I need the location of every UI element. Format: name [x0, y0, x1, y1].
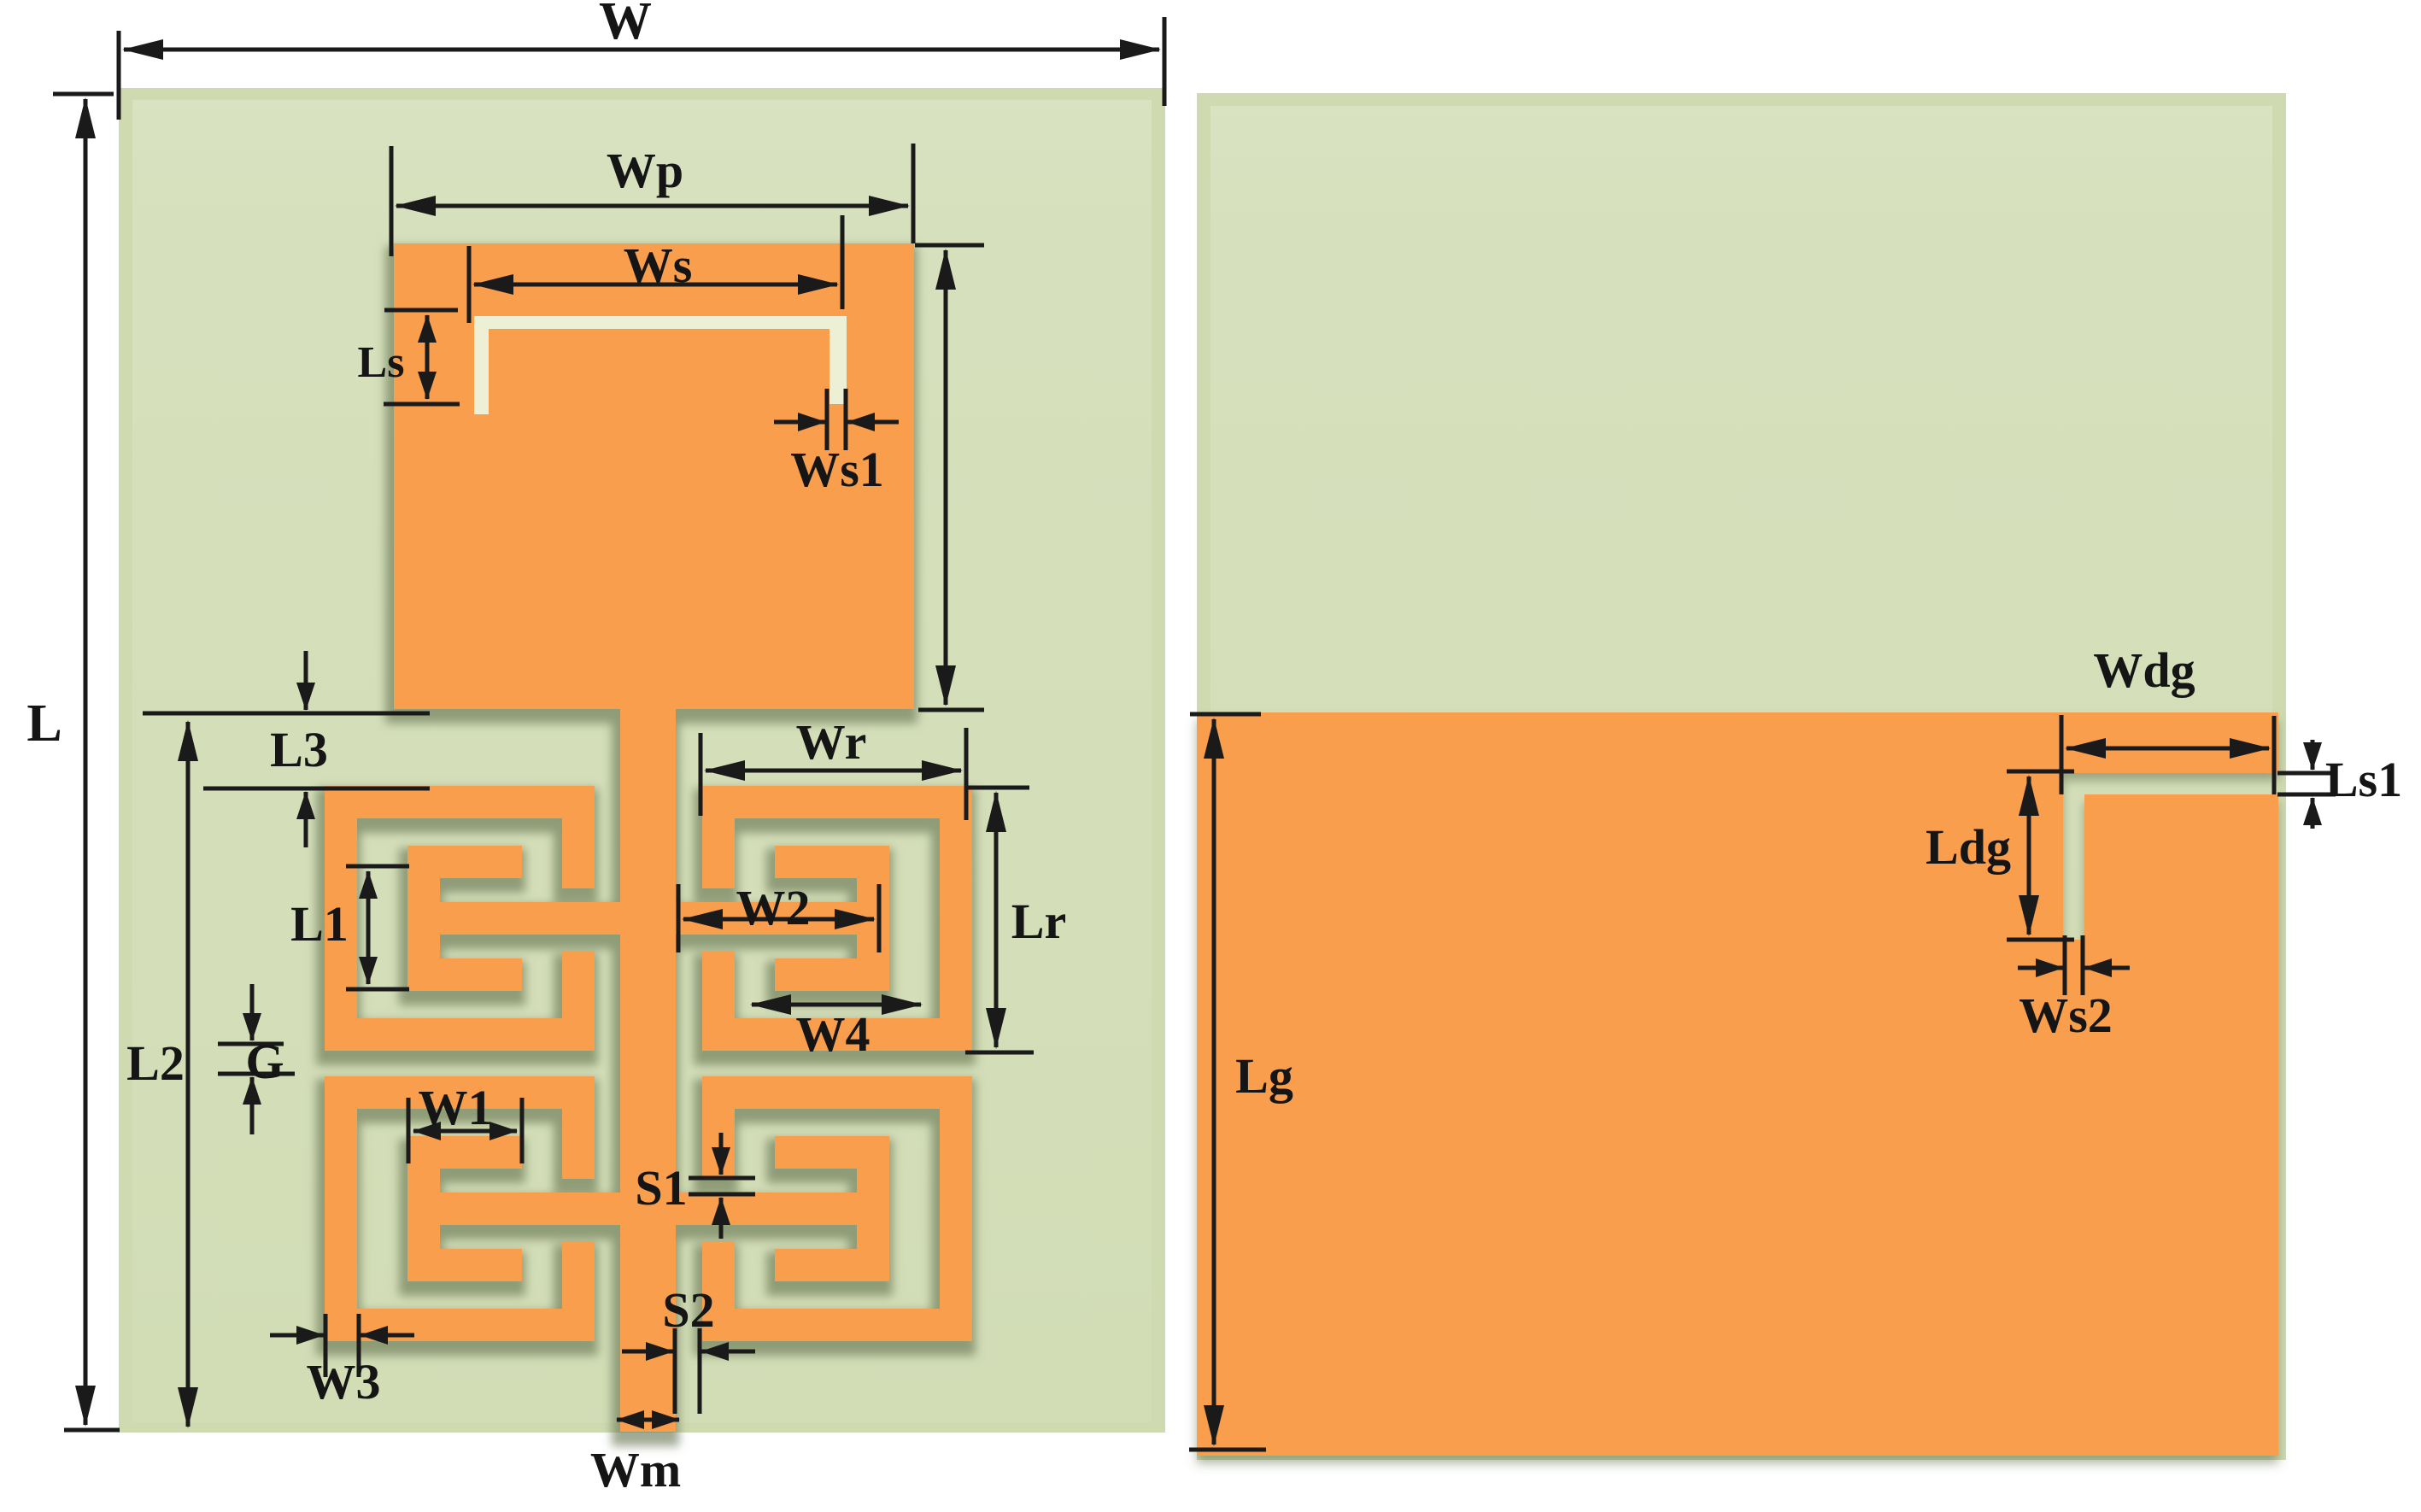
- svg-text:Wr: Wr: [796, 714, 867, 770]
- svg-text:Lr: Lr: [1011, 894, 1066, 949]
- svg-text:Ldg: Ldg: [1926, 819, 2011, 875]
- svg-text:L1: L1: [290, 896, 349, 952]
- svg-text:Ws1: Ws1: [790, 442, 884, 497]
- svg-text:Ls: Ls: [358, 338, 405, 387]
- svg-text:W4: W4: [796, 1006, 871, 1062]
- svg-text:Ws2: Ws2: [2019, 987, 2113, 1043]
- svg-text:Wm: Wm: [590, 1442, 681, 1497]
- svg-text:Wdg: Wdg: [2093, 642, 2195, 698]
- svg-text:S2: S2: [662, 1282, 714, 1338]
- svg-text:Ws: Ws: [624, 237, 693, 293]
- svg-text:L2: L2: [126, 1035, 185, 1091]
- svg-text:Wp: Wp: [607, 143, 683, 198]
- svg-text:W2: W2: [736, 880, 811, 935]
- svg-text:Ls1: Ls1: [2325, 752, 2402, 807]
- svg-text:L3: L3: [270, 722, 328, 777]
- svg-text:G: G: [245, 1034, 284, 1089]
- svg-text:Lg: Lg: [1235, 1048, 1293, 1104]
- svg-text:W1: W1: [419, 1080, 493, 1135]
- svg-text:L: L: [26, 694, 62, 753]
- svg-text:W3: W3: [307, 1354, 381, 1409]
- svg-text:W: W: [599, 0, 652, 50]
- svg-text:S1: S1: [635, 1160, 687, 1216]
